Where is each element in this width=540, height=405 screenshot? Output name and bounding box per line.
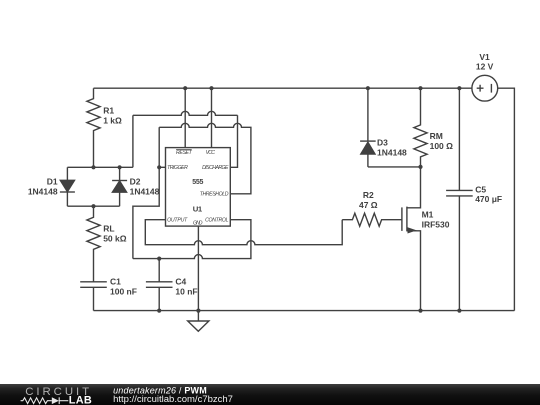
junction d3/rm/m1 bbox=[418, 165, 422, 169]
svg-text:100 Ω: 100 Ω bbox=[430, 141, 454, 151]
junction c5/bottom rail bbox=[457, 309, 461, 313]
svg-text:D1: D1 bbox=[47, 177, 58, 187]
svg-text:D2: D2 bbox=[130, 177, 141, 187]
svg-text:12 V: 12 V bbox=[476, 62, 494, 72]
footer bar bbox=[0, 384, 540, 405]
resistor RL bbox=[87, 206, 127, 282]
resistor R1 bbox=[87, 88, 122, 167]
svg-text:RESET: RESET bbox=[176, 150, 193, 156]
svg-text:OUTPUT: OUTPUT bbox=[167, 218, 188, 224]
junction trigger bbox=[157, 165, 161, 169]
pin label RESET (with overline) bbox=[176, 150, 193, 156]
svg-text:C4: C4 bbox=[175, 277, 186, 287]
ground bbox=[188, 311, 209, 332]
svg-text:V1: V1 bbox=[479, 52, 490, 62]
svg-text:D3: D3 bbox=[377, 138, 388, 148]
wire down to discharge pin bbox=[230, 115, 237, 167]
junction d3/top rail bbox=[366, 86, 370, 90]
wire trigger vertical with jog bbox=[133, 127, 159, 258]
resistor RM bbox=[414, 88, 453, 167]
junction r1/diode rail bbox=[91, 165, 95, 169]
junction c4/bottom rail bbox=[157, 309, 161, 313]
voltage source V1 bbox=[472, 52, 498, 101]
svg-text:VCC: VCC bbox=[206, 150, 216, 156]
logo resistor zigzag and diode bbox=[21, 397, 69, 404]
wire trigger pin stub bbox=[159, 166, 165, 168]
wire top supply rail bbox=[94, 87, 472, 89]
svg-text:GND: GND bbox=[193, 221, 203, 227]
svg-text:555: 555 bbox=[192, 179, 203, 186]
svg-text:R1: R1 bbox=[103, 106, 114, 116]
svg-text:C5: C5 bbox=[475, 184, 486, 194]
svg-text:1N4148: 1N4148 bbox=[377, 147, 407, 157]
svg-text:RL: RL bbox=[103, 223, 114, 233]
junction gnd/bottom rail bbox=[196, 309, 200, 313]
svg-text:CONTROL: CONTROL bbox=[205, 218, 229, 224]
channel bar bbox=[406, 207, 408, 232]
wire threshold rail with hops bbox=[159, 123, 251, 194]
junction m1 source/bottom rail bbox=[418, 309, 422, 313]
junction c4/control bbox=[157, 257, 161, 261]
wire vcc pin vertical bbox=[211, 88, 213, 147]
resistor R2 bbox=[342, 190, 402, 226]
svg-text:IRF530: IRF530 bbox=[422, 219, 450, 229]
svg-text:THRESHOLD: THRESHOLD bbox=[200, 192, 229, 198]
svg-text:RM: RM bbox=[430, 131, 443, 141]
svg-text:1 kΩ: 1 kΩ bbox=[103, 116, 122, 126]
wire diode bottom rail bbox=[67, 205, 119, 207]
junction rm/top rail bbox=[418, 86, 422, 90]
capacitor C5 bbox=[446, 88, 502, 310]
wire top rail right segment and right edge down bbox=[498, 88, 515, 310]
wire diode top rail (trigger node) bbox=[67, 166, 132, 168]
wire reset pin vertical bbox=[184, 88, 186, 147]
svg-text:47 Ω: 47 Ω bbox=[359, 200, 378, 210]
junction c5/top rail bbox=[457, 86, 461, 90]
body arrow bbox=[408, 227, 417, 233]
capacitor C4 bbox=[146, 259, 198, 311]
gate bar bbox=[401, 207, 403, 231]
wire discharge rail with hops bbox=[133, 111, 238, 115]
wire D3 to RM node bbox=[368, 166, 421, 168]
junction vcc/top rail bbox=[209, 86, 213, 90]
source lead bbox=[407, 231, 421, 311]
transistor M1 (NMOS IRF530) bbox=[402, 167, 450, 311]
wire gnd pin vertical bbox=[197, 226, 199, 311]
svg-text:LAB: LAB bbox=[69, 394, 92, 405]
svg-text:C1: C1 bbox=[110, 277, 121, 287]
svg-text:http://circuitlab.com/c7bzch7: http://circuitlab.com/c7bzch7 bbox=[113, 394, 233, 405]
svg-text:U1: U1 bbox=[193, 205, 203, 214]
junction reset/top rail bbox=[183, 86, 187, 90]
svg-text:470 μF: 470 μF bbox=[475, 194, 502, 204]
drain lead bbox=[407, 167, 421, 208]
wire output net with hops bbox=[145, 220, 342, 245]
wire bottom ground rail bbox=[94, 310, 515, 312]
wire from diode rail up to discharge rail bbox=[132, 115, 134, 167]
svg-text:1N4148: 1N4148 bbox=[28, 187, 58, 197]
diode D3 bbox=[360, 88, 407, 167]
junction d2/diode rail bbox=[118, 165, 122, 169]
svg-text:M1: M1 bbox=[422, 209, 434, 219]
svg-text:50 kΩ: 50 kΩ bbox=[103, 233, 127, 243]
diode D2 bbox=[112, 167, 160, 206]
svg-text:100 nF: 100 nF bbox=[110, 287, 137, 297]
svg-text:R2: R2 bbox=[363, 190, 374, 200]
svg-text:DISCHARGE: DISCHARGE bbox=[202, 165, 229, 171]
IC U1 555 timer bbox=[166, 88, 231, 310]
svg-text:10 nF: 10 nF bbox=[175, 287, 197, 297]
svg-text:TRIGGER: TRIGGER bbox=[167, 165, 188, 171]
junction rl/diode bottom rail bbox=[91, 204, 95, 208]
svg-text:1N4148: 1N4148 bbox=[130, 187, 160, 197]
diode D1 bbox=[28, 167, 75, 206]
wire control net with hop bbox=[133, 220, 251, 259]
capacitor C1 bbox=[80, 277, 137, 311]
